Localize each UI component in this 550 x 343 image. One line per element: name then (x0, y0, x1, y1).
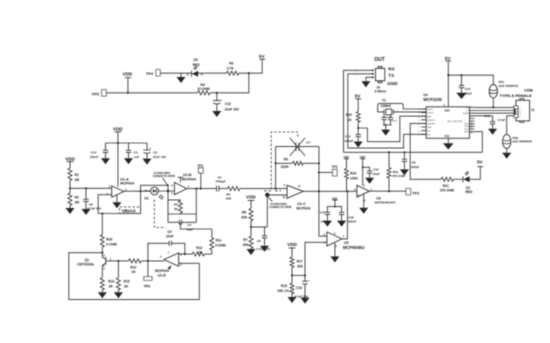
node R18 top (388, 151, 390, 153)
ground below C18 (337, 221, 346, 227)
svg-text:RX: RX (388, 67, 395, 72)
svg-text:11: 11 (298, 184, 301, 188)
svg-text:8: 8 (356, 71, 358, 73)
svg-text:VDD: VDD (123, 72, 133, 77)
connector J1 USB TYPE-A FEMALE (500, 87, 535, 122)
power flag VDD (caps row) (113, 126, 123, 143)
capacitor C5 4700pF (215, 175, 227, 191)
wire guard bracket around D1 (141, 185, 168, 213)
wire J4 GND (361, 77, 372, 87)
node U1-A output / guard (140, 190, 142, 192)
svg-text:D+: D+ (466, 107, 470, 109)
svg-text:2: 2 (519, 110, 521, 112)
resistor R6 50K (226, 187, 240, 201)
power flag VDD (R1) (65, 156, 75, 168)
svg-text:100pF: 100pF (411, 165, 420, 169)
node cap rail (385, 124, 387, 126)
IC left pin names (418, 109, 436, 136)
capacitor C18 100nF (335, 207, 357, 224)
svg-text:R10: R10 (350, 172, 356, 176)
wire U4 D+ row (475, 106, 494, 108)
node C13 tap (216, 92, 218, 94)
svg-text:RX: RX (427, 134, 431, 136)
dashed centerline D1 (154, 200, 165, 228)
svg-text:7: 7 (188, 184, 190, 188)
svg-text:2: 2 (335, 244, 337, 248)
label guard ring note (right) (269, 197, 292, 209)
wire caps rail (106, 142, 148, 144)
svg-text:+: + (308, 280, 310, 283)
connector J4 3 Wires (356, 66, 398, 93)
svg-text:TP5: TP5 (92, 91, 100, 96)
svg-text:MCP604: MCP604 (182, 177, 196, 181)
IC right pin names (447, 106, 473, 135)
LED D5 RED (187, 58, 227, 77)
svg-text:D-: D- (466, 110, 469, 112)
wire J4 TX net (348, 74, 426, 148)
ferrite bead FB1 SAF FERRITE (489, 80, 518, 98)
wire TP4 to D5 (160, 72, 191, 74)
svg-text:2M: 2M (75, 178, 80, 182)
svg-text:0 OHM: 0 OHM (106, 243, 117, 247)
svg-text:TYPE-A FEMALE: TYPE-A FEMALE (500, 93, 532, 98)
test point TP2 (319, 165, 338, 176)
svg-text:VDD: VDD (287, 242, 297, 247)
svg-text:30K: 30K (243, 243, 250, 247)
ground below C10 (301, 298, 310, 304)
op-amp U1-D MCP604 (points left) (155, 251, 182, 278)
svg-text:OSC1: OSC1 (427, 109, 434, 111)
resistor R21 470 OHM (440, 177, 454, 192)
wire R6 to U1-C in- (240, 188, 287, 190)
svg-text:RED: RED (193, 63, 201, 67)
wire serial net row (344, 151, 483, 153)
svg-text:2: 2 (103, 266, 105, 270)
svg-text:30K: 30K (241, 216, 248, 220)
ground below C12 (456, 93, 466, 99)
svg-text:GP3: GP3 (464, 126, 469, 128)
power flag VDD (C17/C18) (332, 196, 338, 206)
node rail B top (346, 190, 348, 192)
capacitor C8 100pF (402, 152, 420, 169)
svg-text:R8: R8 (242, 211, 246, 215)
svg-text:GP5: GP5 (464, 132, 469, 134)
svg-text:R14: R14 (108, 280, 114, 284)
node C9 / in- (184, 253, 186, 255)
ground below R7 (247, 249, 256, 255)
wire J1 shield to FB2 (507, 116, 515, 135)
ground below C2 (143, 159, 152, 165)
op-amp U1-C MCP604 (283, 183, 311, 211)
power flag 5V (U4) (445, 56, 452, 107)
svg-text:C11: C11 (373, 168, 379, 172)
capacitor C12 10uF (459, 75, 472, 95)
node R9 right (318, 162, 320, 164)
wire base row (118, 260, 128, 262)
resistor R18 470 OHM (pullup) (387, 152, 405, 191)
svg-text:2.7K: 2.7K (227, 66, 235, 70)
node VBIAS junction (101, 212, 103, 214)
resistor R10 100K (345, 168, 359, 191)
capacitor C7 (not populated, X) (290, 138, 311, 156)
svg-text:1: 1 (370, 187, 372, 191)
svg-text:4700pF: 4700pF (215, 180, 226, 184)
svg-text:9: 9 (284, 183, 286, 187)
wire C7 row (276, 146, 319, 148)
wire J4 RX net (344, 70, 373, 152)
svg-text:5V: 5V (355, 94, 362, 99)
svg-text:C7: C7 (306, 140, 310, 144)
resistor R15 2K (116, 261, 129, 292)
LED D2 RED (463, 171, 473, 194)
node U1-B in- (167, 190, 170, 193)
svg-text:5V: 5V (477, 160, 484, 165)
svg-text:50K: 50K (226, 196, 232, 200)
IC U4 MCP2200 body (423, 93, 469, 138)
ground below U1-A (112, 195, 121, 208)
resistor R5 2K (168, 200, 182, 214)
wire D1 anode (144, 190, 151, 192)
svg-text:470 OHM: 470 OHM (440, 189, 454, 193)
wire D1 cathode to node (158, 190, 174, 192)
svg-text:C13: C13 (225, 102, 231, 106)
resistor R14 2K (100, 278, 114, 293)
svg-text:30K: 30K (297, 264, 304, 268)
node Q1 collector (101, 252, 103, 254)
svg-text:1K: 1K (198, 250, 203, 254)
svg-text:470 OHM: 470 OHM (392, 174, 405, 178)
capacitor C14 100nF (90, 143, 108, 159)
svg-text:RED: RED (465, 190, 473, 194)
svg-text:U1-D: U1-D (158, 273, 167, 277)
photodiode D1 (145, 187, 164, 201)
wire R12 to R11 (205, 253, 212, 255)
svg-text:R17: R17 (297, 259, 303, 263)
svg-text:R11: R11 (216, 239, 222, 243)
IC left pin stubs (421, 109, 426, 134)
ground below C11 (365, 178, 374, 184)
svg-text:R15: R15 (124, 280, 130, 284)
capacitor C2 22uF 16V (polarized) (143, 143, 166, 159)
resistor R20 1K (346, 112, 360, 129)
wire R11 top to U1-B feedback (180, 222, 211, 229)
wire U4 D- to J1 (475, 110, 515, 112)
wire TP5 to R4 (106, 92, 197, 94)
test point TP3 (406, 189, 419, 196)
svg-text:VSS: VSS (444, 134, 449, 138)
svg-text:VUSB: VUSB (463, 113, 469, 115)
svg-text:30K 1%: 30K 1% (277, 289, 289, 293)
svg-text:22uF 16V: 22uF 16V (225, 107, 240, 111)
svg-text:CONNECTS HERE: CONNECTS HERE (269, 205, 292, 209)
dashed guard outline (262, 132, 297, 191)
node R1 R2 (69, 187, 71, 189)
node 5V rail (447, 74, 449, 76)
svg-text:2K: 2K (124, 285, 129, 289)
wire collector to loop (69, 253, 200, 300)
wire U4 VUSB (475, 115, 493, 117)
test point TP5 (92, 90, 107, 97)
wire serial riser to MCP2200 (475, 132, 483, 153)
svg-text:TP6: TP6 (144, 285, 151, 289)
svg-text:GP0/TX: GP0/TX (427, 120, 435, 122)
ground below C15 (354, 142, 363, 148)
svg-text:VDD: VDD (113, 126, 123, 131)
power flag 5V (top-left circuit) (259, 54, 266, 59)
resistor R8 30K (241, 208, 253, 227)
ground below C8 (400, 169, 409, 175)
svg-text:1: 1 (343, 235, 345, 239)
node divider right (304, 274, 306, 276)
svg-text:R21: R21 (443, 184, 449, 188)
svg-text:CONNECTS HERE: CONNECTS HERE (153, 174, 176, 178)
wire 5V rail to FB1 (448, 75, 493, 84)
svg-text:+: + (150, 147, 152, 150)
wire guard/bias riser (267, 195, 287, 227)
node J1 D+ (514, 112, 516, 114)
svg-text:5: 5 (363, 183, 365, 187)
resistor R4 10 OHM (197, 83, 210, 95)
svg-text:0 OHM: 0 OHM (215, 244, 226, 248)
svg-text:4.7uF: 4.7uF (497, 118, 505, 122)
svg-text:100nF: 100nF (348, 220, 357, 224)
svg-text:C12: C12 (465, 87, 471, 91)
svg-text:9: 9 (356, 74, 358, 76)
capacitor C6 4.7uF 25V (256, 227, 270, 251)
svg-text:C17: C17 (320, 211, 326, 215)
svg-text:USB: USB (524, 87, 533, 92)
svg-text:MCP604: MCP604 (296, 207, 310, 211)
svg-text:MCP6546U0TA: MCP6546U0TA (375, 201, 397, 205)
transistor Q1 (77, 253, 118, 278)
power flag VDD (R17) (287, 242, 297, 257)
svg-text:C6: C6 (257, 239, 261, 243)
capacitor C9 10nF feedback (148, 230, 185, 261)
svg-text:3 Wires: 3 Wires (375, 89, 387, 93)
svg-text:Q1: Q1 (85, 258, 90, 262)
node C8 tap (85, 187, 87, 189)
wire R20 node to MCP2200 (358, 116, 426, 142)
svg-text:10: 10 (283, 195, 286, 199)
wire FB2 to ground (502, 148, 511, 158)
svg-text:3: 3 (364, 199, 366, 203)
svg-text:GP1/RX: GP1/RX (427, 124, 436, 126)
resistor R11 0 OHM (210, 229, 226, 254)
svg-text:2: 2 (106, 192, 108, 196)
svg-text:3: 3 (418, 113, 420, 115)
capacitor XC1 22pF (381, 114, 391, 125)
resistor R3 2.7K (226, 61, 239, 75)
ground below C1 (124, 158, 133, 164)
resistor R1 2M (68, 168, 79, 188)
wire divider rail (251, 226, 267, 228)
svg-text:TP2: TP2 (332, 165, 338, 169)
svg-text:VDD: VDD (444, 108, 450, 112)
svg-text:GP6: GP6 (427, 127, 432, 129)
wire U5 in+ from divider (305, 242, 327, 275)
svg-text:100nF: 100nF (90, 155, 99, 159)
svg-text:TX: TX (388, 73, 395, 78)
svg-text:D1: D1 (145, 197, 149, 201)
svg-text:3: 3 (103, 254, 105, 258)
ground below U3 (359, 194, 368, 214)
node J1 D- (514, 110, 516, 112)
svg-text:R16: R16 (106, 238, 112, 242)
node VDD rail (117, 142, 119, 144)
svg-text:R3: R3 (229, 61, 233, 65)
svg-text:820K: 820K (281, 165, 290, 169)
svg-text:1nF: 1nF (134, 155, 140, 159)
node TP1 tap (200, 188, 202, 190)
svg-text:R18: R18 (393, 170, 399, 174)
svg-text:R13: R13 (130, 265, 136, 269)
svg-text:11pF: 11pF (186, 227, 193, 231)
node R18 pullup bottom (388, 190, 390, 192)
svg-text:8: 8 (418, 131, 420, 133)
crystal Y1 12MHZ loop (378, 99, 427, 112)
svg-text:R7: R7 (243, 238, 247, 242)
svg-text:8: 8 (471, 132, 473, 134)
node divider left (291, 274, 293, 276)
svg-text:6: 6 (171, 183, 173, 187)
power flag 5V (R20) (355, 94, 362, 112)
node divider mid (250, 226, 252, 228)
label guard ring note (left) (153, 171, 176, 187)
svg-text:SAF FERRITE: SAF FERRITE (512, 140, 532, 144)
node TP5/VDD junction (127, 92, 129, 94)
capacitor XC2 22pF (388, 115, 398, 125)
wire rail A into U5 (319, 235, 327, 237)
resistor R12 1K (192, 246, 205, 256)
svg-text:3: 3 (519, 113, 521, 115)
wire U1-D in- row (179, 253, 192, 255)
wire R1/R2 node to U1-A in+ (70, 187, 112, 189)
node output/right rail (318, 190, 320, 192)
ground below R18 (288, 297, 297, 303)
capacitor C10 4.7uF 25V (294, 275, 310, 298)
svg-text:R2: R2 (75, 195, 79, 199)
capacitor C4 11pF (bottom loop) (168, 220, 196, 232)
svg-text:4: 4 (519, 116, 521, 118)
wire feedback right rail (318, 147, 320, 237)
node Q1 base / R15 (117, 260, 119, 262)
ground below R14 (98, 292, 107, 298)
ground below U4 VSS (443, 138, 454, 149)
crystal element (377, 109, 427, 115)
svg-text:5: 5 (171, 191, 173, 195)
node feedback/output (195, 188, 197, 190)
svg-text:R9: R9 (284, 158, 288, 162)
IC right pin stubs (470, 107, 475, 131)
ground below C13 (212, 111, 221, 117)
svg-text:C8: C8 (412, 160, 416, 164)
svg-text:5V: 5V (259, 54, 266, 59)
svg-text:VDD: VDD (65, 156, 75, 161)
ground below C16 (488, 129, 497, 135)
op-amp U1-A MCP604 (106, 177, 134, 197)
svg-text:100nF: 100nF (344, 139, 353, 143)
wire U1-B output row (187, 188, 217, 190)
svg-text:R20: R20 (346, 113, 352, 117)
node in- rail join (275, 188, 277, 190)
svg-text:2K: 2K (109, 285, 114, 289)
svg-text:R1: R1 (75, 173, 79, 177)
node TP2 tap (318, 171, 320, 173)
svg-text:D5: D5 (194, 58, 198, 62)
ground below C6 (260, 246, 269, 252)
op-amp U1-B MCP604 (171, 173, 196, 195)
node R9 left (275, 162, 277, 164)
resistor R7 30K (243, 227, 253, 249)
svg-text:5V: 5V (445, 56, 452, 61)
svg-text:SAF FERRITE: SAF FERRITE (499, 84, 519, 88)
wire crystal cap rail (383, 125, 392, 130)
node R3/R4 join (248, 72, 250, 74)
svg-text:1: 1 (519, 108, 521, 110)
svg-text:GPO_LED/GP1: GPO_LED/GP1 (447, 121, 463, 123)
capacitor C15 100nF (344, 128, 361, 143)
wire LED row (410, 123, 441, 179)
test point TP1 (197, 164, 203, 188)
node bypass rail (334, 206, 336, 208)
wire U4 D+ to J1 (475, 112, 515, 114)
ground below R2 (66, 208, 75, 214)
svg-text:1: 1 (110, 257, 112, 261)
ground at TP4 wire (177, 73, 186, 83)
ground below C14 (101, 158, 110, 164)
capacitor C11 10nF (363, 167, 380, 178)
wire feedback rail mid (168, 213, 196, 215)
test point TP4 (146, 70, 160, 76)
comparator U3 MCP6546U0TA (354, 183, 396, 204)
capacitor C13 22uF 16V (polarized) (213, 93, 240, 112)
power flag 5V (LED) (477, 160, 484, 167)
wire D2 to 5V (470, 167, 481, 180)
node C11 tap (362, 166, 364, 168)
svg-text:U1-C: U1-C (297, 202, 306, 206)
svg-text:RST: RST (427, 116, 432, 118)
resistor R18 30K 1% (277, 275, 294, 297)
svg-text:OSC2: OSC2 (427, 113, 434, 115)
ground below C17 (323, 221, 332, 227)
svg-text:C4: C4 (187, 223, 191, 227)
svg-text:2M: 2M (75, 200, 80, 204)
capacitor C17 1nF (320, 207, 335, 224)
wire R4 to corner (210, 73, 249, 93)
svg-text:TP4: TP4 (146, 71, 154, 76)
svg-text:1: 1 (168, 251, 170, 255)
svg-text:Y1: Y1 (382, 99, 386, 103)
wire U1-A in- loop (98, 195, 140, 214)
node R20/C15 (357, 127, 359, 129)
svg-text:1K: 1K (347, 118, 352, 122)
power flag VDD (R10) (343, 155, 349, 168)
svg-text:MCP2200: MCP2200 (423, 97, 442, 102)
wire R3 to 5V riser (239, 59, 262, 73)
svg-text:7: 7 (160, 255, 162, 259)
svg-text:5: 5 (334, 231, 336, 235)
svg-text:MCP6546U: MCP6546U (343, 245, 365, 250)
wire R21 to D2 (454, 178, 463, 180)
net label VBIAS (dashed box) (120, 207, 141, 214)
ground below U5 (330, 243, 339, 262)
wire rail B (R10/out) (342, 191, 348, 239)
resistor R17 30K (290, 257, 304, 276)
resistor R9 820K (281, 158, 303, 169)
svg-text:TP3: TP3 (412, 191, 419, 195)
svg-text:10nF: 10nF (373, 172, 380, 176)
ground below R15 (114, 292, 123, 298)
